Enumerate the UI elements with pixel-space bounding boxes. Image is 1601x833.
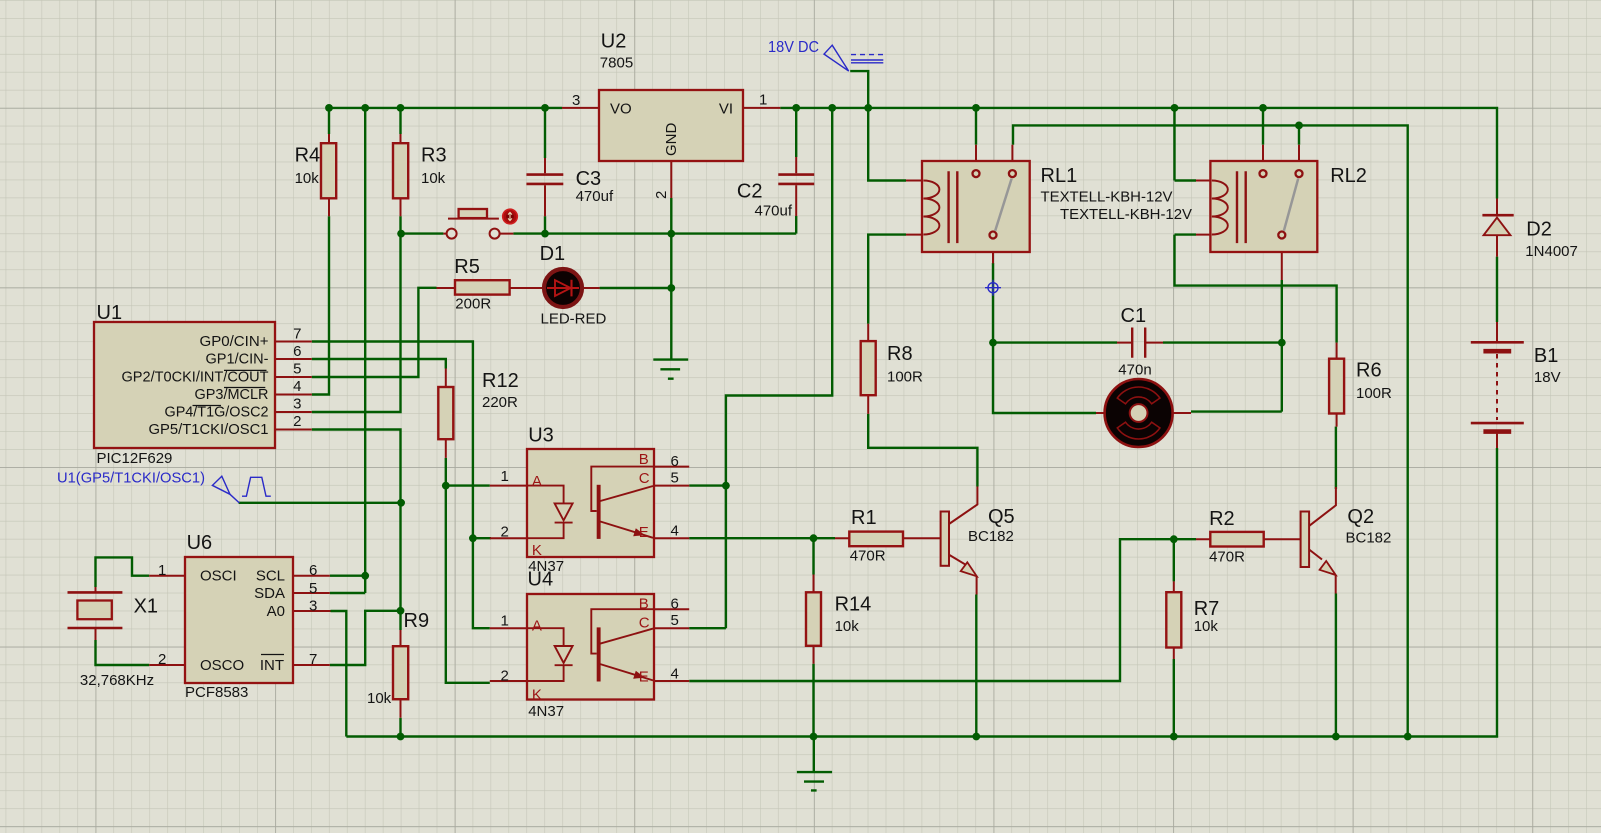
svg-text:RL1: RL1 [1041, 165, 1078, 187]
svg-text:R7: R7 [1194, 598, 1220, 620]
svg-text:32,768KHz: 32,768KHz [80, 672, 154, 689]
svg-text:U2: U2 [601, 31, 627, 53]
svg-text:6: 6 [293, 343, 301, 360]
svg-text:2: 2 [293, 413, 301, 430]
svg-text:4: 4 [293, 378, 301, 395]
svg-text:470uf: 470uf [755, 203, 793, 220]
svg-text:Q2: Q2 [1347, 506, 1374, 528]
svg-text:R9: R9 [404, 610, 430, 632]
svg-text:E: E [639, 524, 649, 541]
svg-text:U3: U3 [528, 425, 554, 447]
svg-text:D2: D2 [1526, 219, 1552, 241]
svg-text:4N37: 4N37 [528, 558, 564, 575]
svg-text:6: 6 [671, 596, 679, 613]
svg-text:BC182: BC182 [1346, 530, 1392, 547]
svg-text:B: B [639, 596, 649, 613]
svg-text:3: 3 [572, 92, 580, 109]
svg-text:100R: 100R [1356, 385, 1392, 402]
svg-text:2: 2 [501, 524, 509, 541]
svg-text:VI: VI [719, 101, 733, 118]
svg-text:10k: 10k [835, 618, 860, 635]
svg-text:R4: R4 [295, 145, 321, 167]
svg-text:A: A [532, 618, 542, 635]
svg-text:7805: 7805 [600, 54, 633, 71]
svg-text:220R: 220R [482, 394, 518, 411]
svg-text:R12: R12 [482, 370, 519, 392]
svg-text:PIC12F629: PIC12F629 [97, 450, 173, 467]
svg-text:R3: R3 [421, 145, 447, 167]
svg-text:C2: C2 [737, 181, 763, 203]
svg-text:R1: R1 [851, 507, 877, 529]
svg-text:10k: 10k [295, 170, 320, 187]
svg-text:2: 2 [501, 668, 509, 685]
svg-text:RL2: RL2 [1330, 165, 1367, 187]
svg-text:2: 2 [158, 651, 166, 668]
svg-text:U1(GP5/T1CKI/OSC1): U1(GP5/T1CKI/OSC1) [57, 470, 205, 487]
svg-text:A0: A0 [267, 603, 285, 620]
svg-text:K: K [532, 542, 542, 559]
svg-text:GP5/T1CKI/OSC1: GP5/T1CKI/OSC1 [149, 421, 269, 438]
svg-text:5: 5 [671, 612, 679, 629]
svg-text:R5: R5 [454, 256, 480, 278]
svg-text:470R: 470R [850, 548, 886, 565]
svg-text:R8: R8 [887, 343, 913, 365]
svg-text:Q5: Q5 [988, 506, 1015, 528]
svg-text:1: 1 [759, 92, 767, 109]
svg-text:C3: C3 [576, 168, 602, 190]
svg-text:A: A [532, 473, 542, 490]
svg-text:5: 5 [293, 361, 301, 378]
svg-text:3: 3 [309, 598, 317, 615]
svg-text:C: C [639, 615, 650, 632]
svg-text:5: 5 [309, 580, 317, 597]
svg-text:K: K [532, 686, 542, 703]
svg-text:470R: 470R [1209, 549, 1245, 566]
svg-text:10k: 10k [1194, 618, 1219, 635]
svg-text:470uf: 470uf [576, 188, 614, 205]
svg-text:INT: INT [260, 657, 284, 674]
svg-text:VO: VO [610, 101, 632, 118]
svg-text:18V DC: 18V DC [768, 39, 819, 56]
svg-text:SCL: SCL [256, 568, 285, 585]
svg-text:1N4007: 1N4007 [1525, 243, 1578, 260]
svg-text:3: 3 [293, 396, 301, 413]
svg-text:TEXTELL-KBH-12V: TEXTELL-KBH-12V [1060, 206, 1192, 223]
svg-text:18V: 18V [1534, 369, 1561, 386]
svg-text:4: 4 [671, 523, 679, 540]
svg-text:470n: 470n [1118, 362, 1151, 379]
svg-text:10k: 10k [421, 170, 446, 187]
svg-text:B1: B1 [1534, 345, 1558, 367]
svg-text:R2: R2 [1209, 508, 1235, 530]
svg-text:GND: GND [663, 123, 680, 157]
svg-text:R6: R6 [1356, 360, 1382, 382]
svg-text:OSCO: OSCO [200, 657, 244, 674]
svg-text:10k: 10k [367, 690, 392, 707]
svg-text:LED-RED: LED-RED [541, 311, 607, 328]
svg-text:7: 7 [309, 651, 317, 668]
svg-text:6: 6 [309, 562, 317, 579]
svg-text:OSCI: OSCI [200, 568, 237, 585]
svg-text:1: 1 [501, 613, 509, 630]
svg-text:C1: C1 [1121, 305, 1147, 327]
svg-text:PCF8583: PCF8583 [185, 684, 248, 701]
svg-text:1: 1 [501, 468, 509, 485]
svg-text:4: 4 [671, 666, 679, 683]
svg-text:BC182: BC182 [968, 528, 1014, 545]
svg-text:4N37: 4N37 [528, 703, 564, 720]
svg-text:GP3/MCLR: GP3/MCLR [195, 386, 269, 403]
svg-text:B: B [639, 451, 649, 468]
svg-text:E: E [639, 668, 649, 685]
svg-text:SDA: SDA [254, 585, 285, 602]
svg-text:U1: U1 [97, 302, 123, 324]
svg-text:6: 6 [671, 453, 679, 470]
svg-text:2: 2 [653, 191, 670, 199]
svg-text:5: 5 [671, 470, 679, 487]
svg-text:1: 1 [158, 562, 166, 579]
svg-text:TEXTELL-KBH-12V: TEXTELL-KBH-12V [1041, 189, 1173, 206]
svg-text:100R: 100R [887, 368, 923, 385]
svg-text:D1: D1 [540, 243, 566, 265]
svg-text:X1: X1 [134, 596, 158, 618]
svg-text:GP1/CIN-: GP1/CIN- [206, 351, 269, 368]
svg-text:R14: R14 [835, 593, 872, 615]
svg-text:7: 7 [293, 326, 301, 343]
svg-text:200R: 200R [455, 296, 491, 313]
svg-text:GP0/CIN+: GP0/CIN+ [200, 333, 269, 350]
svg-text:U6: U6 [187, 532, 213, 554]
svg-text:C: C [639, 470, 650, 487]
